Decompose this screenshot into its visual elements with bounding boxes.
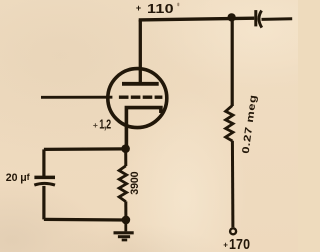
ink speck right of 110 bbox=[177, 3, 179, 7]
resistor R2 0.27 meg zigzag bbox=[226, 106, 233, 141]
tube grid dashed electrode bbox=[119, 95, 162, 98]
capacitor C1 20uf top plate bbox=[34, 176, 55, 180]
svg-text:20 μf: 20 μf bbox=[6, 172, 31, 184]
svg-text:1,2: 1,2 bbox=[99, 118, 111, 132]
wire 3900 upper lead bbox=[124, 149, 127, 166]
wire right branch upper segment (junction to resistor top) bbox=[231, 17, 234, 106]
tube plate bar bbox=[122, 82, 159, 86]
svg-text:3900: 3900 bbox=[129, 171, 141, 194]
capacitor C1 20uf curved bottom plate bbox=[34, 183, 55, 185]
wire cathode net to bypass capacitor (top of loop) bbox=[44, 147, 126, 151]
wire plate lead from tube plate up to top rail bbox=[139, 20, 142, 84]
tube cathode with down lead bbox=[126, 108, 160, 149]
node junction cathode / bypass / 3900 bbox=[121, 144, 130, 153]
svg-text:+: + bbox=[223, 241, 228, 250]
capacitor C2 coupling (straight + curved plate) bbox=[256, 10, 262, 28]
wire ground stub bbox=[124, 220, 127, 232]
svg-text:+: + bbox=[93, 120, 98, 130]
resistor R1 3900 zigzag bbox=[119, 166, 127, 202]
svg-text:170: 170 bbox=[229, 236, 250, 252]
node junction of top rail and 0.27 meg branch bbox=[227, 13, 235, 21]
svg-text:110: 110 bbox=[147, 2, 174, 16]
svg-text:0.27 meg: 0.27 meg bbox=[241, 94, 259, 154]
node terminal +170 open circle bbox=[230, 228, 236, 234]
tube envelope V1 circle bbox=[108, 69, 167, 128]
wire 3900 lower lead to ground junction bbox=[124, 201, 127, 220]
wire from bypass capacitor bottom down to bottom rail bbox=[42, 186, 45, 220]
wire bottom rail to ground junction bbox=[44, 218, 126, 222]
wire top rail from plate lead corner to coupling capacitor bbox=[139, 18, 255, 20]
wire down to bypass capacitor top plate bbox=[42, 149, 45, 176]
wire right branch lower segment (resistor bottom to terminal) bbox=[231, 141, 235, 227]
svg-text:+: + bbox=[136, 3, 141, 13]
node junction at ground bbox=[122, 216, 131, 225]
wire output lead right of capacitor bbox=[262, 17, 293, 21]
ground symbol bbox=[114, 233, 134, 240]
wire grid lead (external) bbox=[41, 96, 112, 99]
